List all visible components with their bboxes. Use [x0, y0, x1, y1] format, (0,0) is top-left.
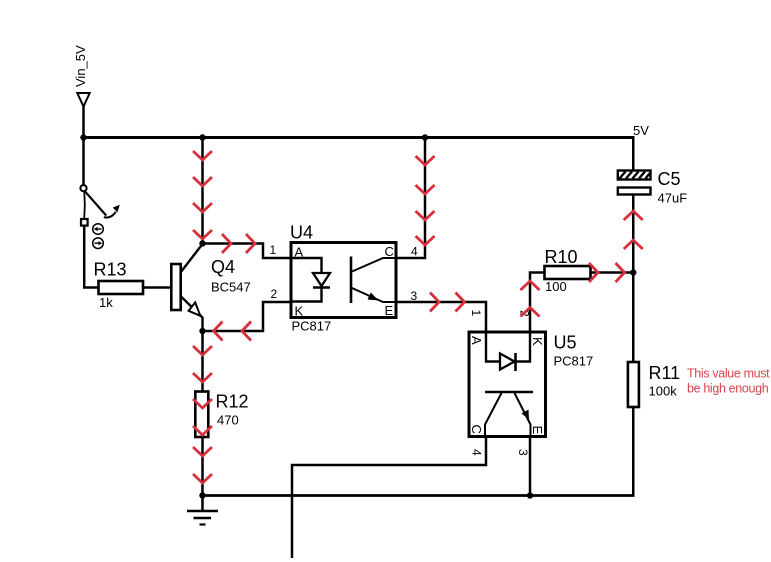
wire Vin stub: [82, 106, 85, 138]
svg-text:100k: 100k: [649, 384, 678, 399]
current arrows C5 branch: [624, 211, 643, 249]
U5 pin label C: [469, 425, 484, 434]
svg-text:K: K: [295, 304, 304, 319]
port Vin_5V triangle: [77, 93, 89, 107]
svg-text:100: 100: [545, 279, 567, 294]
value 1k: [99, 295, 113, 310]
wire ground rail: [203, 494, 635, 497]
ground symbol: [187, 496, 218, 525]
current arrows emitter to ground: [193, 346, 212, 483]
wire bus to Q4 collector: [201, 138, 204, 244]
resistor R12: [195, 392, 208, 438]
svg-text:Vin_5V: Vin_5V: [73, 45, 88, 87]
optocoupler U5: [469, 332, 546, 437]
junction dot U4 pin4 branch: [422, 134, 428, 140]
svg-text:R12: R12: [216, 392, 249, 412]
wire R10 to C5 node: [591, 271, 634, 274]
junction dot U5 pin3 / rail: [527, 492, 533, 498]
svg-text:4: 4: [411, 245, 418, 259]
pin number 3 (U4): [411, 289, 418, 303]
value 47uF: [658, 191, 688, 206]
label R13: [94, 260, 127, 280]
value 100k: [649, 384, 678, 399]
svg-text:E: E: [385, 303, 394, 318]
label R10: [545, 247, 578, 267]
svg-text:This value must: This value must: [687, 367, 770, 381]
junction dot ground node: [199, 492, 205, 498]
transistor Q4: [171, 244, 202, 331]
wire emitter node to R12: [201, 331, 204, 392]
svg-text:U4: U4: [290, 223, 313, 243]
wire U4 pin3 to U5 pin1: [396, 302, 486, 332]
junction dot C5/R10 node: [630, 269, 636, 275]
U4 phototransistor base bar: [350, 257, 353, 304]
current arrows collector horizontal: [222, 234, 255, 253]
U5 phototransistor collector: [485, 393, 502, 437]
label C5: [658, 169, 681, 189]
value BC547: [211, 280, 251, 295]
svg-text:1: 1: [270, 243, 277, 257]
switch fixed lead: [83, 192, 86, 220]
wire U4 pin4 to bus: [396, 138, 425, 258]
U4 pin label C: [385, 244, 394, 259]
resistor R13: [99, 281, 144, 294]
U4 internal LED anode wire: [291, 258, 322, 273]
current arrows collector vertical: [193, 151, 212, 239]
switch direction indicator left: [93, 224, 104, 235]
wire switch to R13: [84, 226, 98, 288]
svg-text:4: 4: [470, 449, 484, 456]
current arrows R10 output: [589, 263, 625, 282]
wire bus corner down to C5: [632, 136, 635, 172]
U4 pin label E: [385, 303, 394, 318]
svg-text:1k: 1k: [99, 295, 113, 310]
svg-text:PC817: PC817: [292, 319, 332, 334]
wire 5V bus: [82, 136, 634, 139]
value 470: [217, 413, 239, 428]
label R11: [649, 363, 681, 383]
current arrows U4 pin3 horizontal: [430, 293, 465, 312]
wire U5 pin4 to bottom: [292, 437, 486, 559]
svg-text:470: 470: [217, 413, 239, 428]
pin number 4 (U4): [411, 245, 418, 259]
svg-text:3: 3: [516, 449, 530, 456]
optocoupler U4: [291, 243, 396, 318]
wire U5 pin2 to R10: [530, 273, 545, 333]
value 100: [545, 279, 567, 294]
resistor R11: [628, 362, 639, 407]
wire C5 to R10 node: [632, 195, 635, 273]
annotation red note line2: [687, 382, 769, 396]
svg-text:C5: C5: [658, 169, 681, 189]
current arrows emitter horizontal: [214, 322, 252, 341]
svg-text:E: E: [530, 426, 545, 435]
annotation red note line1: [687, 367, 770, 381]
U5 pin number 1: [469, 310, 483, 317]
junction dot collector branch: [199, 134, 205, 140]
wire collector to U4 pin1: [203, 244, 292, 259]
svg-text:3: 3: [411, 289, 418, 303]
wire R13 to Q4 base: [143, 286, 172, 289]
junction dot emitter node: [199, 328, 205, 334]
wire R12 to ground rail: [201, 437, 204, 496]
value PC817 (U5): [554, 354, 594, 369]
wire U4 pin2 to emitter node: [203, 302, 292, 331]
svg-text:2: 2: [271, 287, 278, 301]
svg-text:R10: R10: [545, 247, 578, 267]
U4 internal LED cathode wire: [291, 288, 322, 302]
label Vin_5V: [73, 45, 88, 87]
label Q4: [211, 257, 235, 277]
junction dot Vin/bus: [80, 134, 86, 140]
current arrows U5 pin2 vertical: [521, 281, 540, 317]
wire R11 to ground rail: [632, 407, 635, 497]
U5 pin number 4: [470, 449, 484, 456]
switch blade: [85, 191, 106, 215]
U5 pin number 2: [518, 310, 532, 317]
wire U5 pin3 to ground rail: [529, 437, 532, 496]
svg-text:C: C: [469, 425, 484, 434]
wire R10 node to R11: [632, 273, 635, 363]
U5 pin number 3: [516, 449, 530, 456]
label 5V: [633, 123, 649, 138]
svg-text:PC817: PC817: [554, 354, 594, 369]
svg-text:K: K: [530, 337, 545, 346]
U5 pin label K: [530, 337, 545, 346]
resistor R10: [545, 266, 591, 279]
svg-text:Q4: Q4: [211, 257, 235, 277]
U5 phototransistor emitter: [515, 393, 531, 437]
U4 internal LED: [313, 273, 330, 288]
label U4: [290, 223, 313, 243]
switch direction indicator right: [93, 238, 104, 249]
pin number 1 (U4): [270, 243, 277, 257]
switch actuator arrow: [104, 205, 120, 218]
U5 internal LED cathode wire: [516, 332, 531, 362]
switch lower contact square: [81, 219, 88, 226]
U4 pin label A: [295, 245, 304, 260]
U5 internal LED: [500, 353, 516, 371]
current arrows U4 pin4 vertical: [416, 156, 435, 245]
label R12: [216, 392, 249, 412]
wire bus to switch: [82, 138, 85, 185]
svg-text:1: 1: [469, 310, 483, 317]
capacitor C5: [618, 171, 651, 195]
svg-text:R11: R11: [649, 363, 681, 383]
svg-text:47uF: 47uF: [658, 191, 688, 206]
U5 internal LED anode wire: [486, 332, 500, 362]
svg-text:BC547: BC547: [211, 280, 251, 295]
U5 pin label E: [530, 426, 545, 435]
label U5: [554, 333, 577, 353]
U4 phototransistor emitter: [352, 288, 396, 302]
svg-text:R13: R13: [94, 260, 127, 280]
U5 phototransistor base bar: [485, 391, 533, 394]
pin number 2 (U4): [271, 287, 278, 301]
switch pivot contact: [80, 185, 86, 191]
U4 phototransistor collector: [352, 258, 396, 272]
value PC817 (U4): [292, 319, 332, 334]
junction dot collector node: [199, 240, 205, 246]
svg-text:C: C: [385, 244, 394, 259]
svg-text:be high enough: be high enough: [687, 382, 769, 396]
U5 pin label A: [469, 336, 484, 345]
svg-text:A: A: [469, 336, 484, 345]
svg-text:U5: U5: [554, 333, 577, 353]
svg-text:5V: 5V: [633, 123, 649, 138]
U4 pin label K: [295, 304, 304, 319]
